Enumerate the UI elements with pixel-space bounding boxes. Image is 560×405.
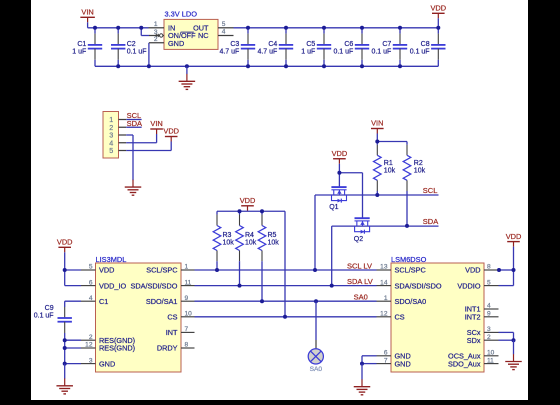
svg-text:C5: C5 — [306, 41, 315, 48]
svg-text:13: 13 — [380, 264, 388, 271]
svg-text:5: 5 — [89, 264, 93, 271]
svg-text:4: 4 — [487, 303, 491, 310]
svg-text:0.1 uF: 0.1 uF — [127, 48, 147, 55]
svg-text:12: 12 — [380, 311, 388, 318]
svg-text:Q2: Q2 — [354, 236, 363, 243]
svg-text:VDD: VDD — [163, 127, 179, 136]
svg-text:0.1 uF: 0.1 uF — [371, 48, 391, 55]
svg-text:SDA: SDA — [127, 119, 142, 128]
svg-text:Q1: Q1 — [329, 204, 338, 211]
svg-text:5: 5 — [222, 21, 226, 28]
svg-text:RES(GND): RES(GND) — [99, 344, 135, 353]
svg-text:10k: 10k — [223, 240, 235, 247]
svg-text:VIN: VIN — [81, 8, 93, 17]
svg-text:VDD: VDD — [57, 238, 73, 247]
svg-text:C9: C9 — [45, 305, 54, 312]
svg-text:SDO/SA1: SDO/SA1 — [146, 297, 178, 306]
svg-text:VDD: VDD — [465, 266, 480, 275]
svg-text:R4: R4 — [245, 232, 254, 239]
svg-text:11: 11 — [487, 357, 494, 364]
svg-text:SDA/SDI/SDO: SDA/SDI/SDO — [395, 281, 442, 290]
svg-text:8: 8 — [185, 342, 189, 349]
svg-text:3: 3 — [487, 326, 491, 333]
svg-text:SCL/SPC: SCL/SPC — [146, 266, 177, 275]
svg-text:VIN: VIN — [371, 119, 383, 128]
svg-text:LIS3MDL: LIS3MDL — [96, 255, 127, 264]
svg-text:SCL LV: SCL LV — [347, 261, 372, 270]
svg-text:INT: INT — [166, 328, 178, 337]
svg-text:C4: C4 — [268, 41, 277, 48]
svg-text:4.7 uF: 4.7 uF — [257, 48, 277, 55]
svg-text:2: 2 — [89, 334, 93, 341]
svg-text:NC: NC — [198, 31, 209, 40]
svg-text:1: 1 — [384, 295, 388, 302]
svg-text:VIN: VIN — [150, 119, 162, 128]
svg-text:VDDIO: VDDIO — [457, 281, 480, 290]
svg-text:4: 4 — [222, 29, 226, 36]
svg-text:R2: R2 — [414, 160, 423, 167]
svg-text:10: 10 — [487, 350, 495, 357]
svg-text:VDD: VDD — [506, 232, 522, 241]
svg-text:1: 1 — [185, 264, 189, 271]
svg-text:2: 2 — [154, 36, 158, 43]
svg-text:10k: 10k — [268, 240, 280, 247]
svg-text:SCL/SPC: SCL/SPC — [395, 266, 426, 275]
svg-text:10: 10 — [185, 311, 193, 318]
svg-text:CS: CS — [395, 313, 405, 322]
svg-text:VDD: VDD — [99, 266, 114, 275]
svg-text:SDx: SDx — [467, 336, 481, 345]
svg-text:INT2: INT2 — [465, 313, 481, 322]
svg-text:C3: C3 — [230, 41, 239, 48]
svg-text:VDD: VDD — [240, 196, 256, 205]
svg-text:C6: C6 — [344, 41, 353, 48]
svg-text:9: 9 — [487, 311, 491, 318]
svg-text:0.1 uF: 0.1 uF — [34, 312, 54, 319]
svg-text:SDA/SDI/SDO: SDA/SDI/SDO — [130, 281, 177, 290]
svg-text:10k: 10k — [414, 168, 426, 175]
svg-text:4: 4 — [89, 295, 93, 302]
svg-text:VDD: VDD — [430, 4, 446, 13]
svg-text:4.7 uF: 4.7 uF — [219, 48, 239, 55]
svg-text:VDD_IO: VDD_IO — [99, 281, 126, 290]
svg-text:CS: CS — [167, 313, 177, 322]
svg-text:SDO/SA0: SDO/SA0 — [395, 297, 427, 306]
svg-text:7: 7 — [185, 326, 189, 333]
svg-text:LSM6DSO: LSM6DSO — [391, 255, 427, 264]
svg-text:SCL: SCL — [423, 186, 438, 195]
svg-text:6: 6 — [384, 350, 388, 357]
svg-text:0.1 uF: 0.1 uF — [410, 48, 430, 55]
svg-text:9: 9 — [185, 295, 189, 302]
svg-text:C8: C8 — [421, 41, 430, 48]
svg-text:C1: C1 — [77, 41, 86, 48]
svg-text:SDO_Aux: SDO_Aux — [448, 359, 481, 368]
svg-text:5: 5 — [109, 146, 113, 155]
svg-text:GND: GND — [395, 359, 411, 368]
svg-text:SDA: SDA — [423, 217, 438, 226]
svg-text:12: 12 — [85, 342, 93, 349]
svg-text:7: 7 — [384, 357, 388, 364]
svg-text:DRDY: DRDY — [157, 344, 178, 353]
svg-text:VDD: VDD — [332, 149, 348, 158]
svg-text:C2: C2 — [127, 41, 136, 48]
svg-text:SDA LV: SDA LV — [347, 277, 373, 286]
svg-text:R3: R3 — [223, 232, 232, 239]
svg-text:8: 8 — [487, 264, 491, 271]
svg-text:R5: R5 — [268, 232, 277, 239]
svg-text:11: 11 — [185, 279, 192, 286]
svg-text:14: 14 — [380, 279, 388, 286]
svg-text:2: 2 — [487, 334, 491, 341]
svg-text:C1: C1 — [99, 297, 108, 306]
svg-text:GND: GND — [168, 39, 184, 48]
svg-text:0.1 uF: 0.1 uF — [333, 48, 353, 55]
svg-text:1 uF: 1 uF — [72, 48, 86, 55]
svg-text:SA0: SA0 — [310, 366, 323, 373]
svg-text:10k: 10k — [245, 240, 257, 247]
svg-text:SA0: SA0 — [354, 292, 368, 301]
svg-text:3: 3 — [89, 357, 93, 364]
svg-text:10k: 10k — [384, 168, 396, 175]
svg-text:3: 3 — [154, 29, 158, 36]
svg-text:C7: C7 — [382, 41, 391, 48]
svg-text:5: 5 — [487, 279, 491, 286]
svg-text:3.3V LDO: 3.3V LDO — [165, 10, 198, 19]
svg-text:1: 1 — [154, 21, 158, 28]
svg-text:1 uF: 1 uF — [301, 48, 315, 55]
svg-text:GND: GND — [99, 359, 115, 368]
svg-text:R1: R1 — [384, 160, 393, 167]
svg-text:6: 6 — [89, 279, 93, 286]
